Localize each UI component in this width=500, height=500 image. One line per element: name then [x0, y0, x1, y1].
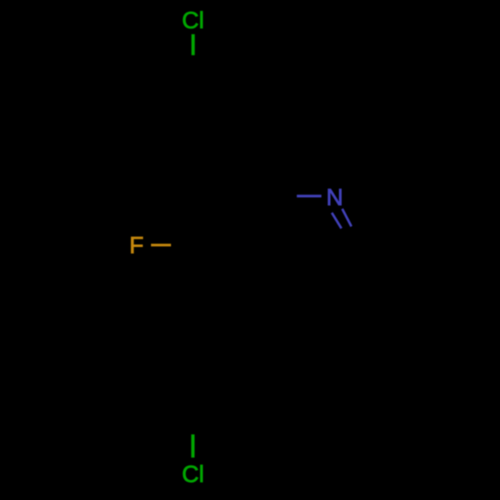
atom N1 (nitrogen label) — [328, 189, 341, 205]
bond F1-C horizontal half-bond (gold) — [151, 244, 171, 247]
atom Cl2 (bottom chlorine label) — [183, 465, 202, 482]
bond C=N1 double bond half, outer line (blue) — [342, 209, 351, 227]
bond C=N1 double bond half, inner line (blue) — [332, 213, 342, 229]
atom Cl1 (top chlorine label) — [183, 11, 202, 28]
bond Cl2-C vertical half-bond (bottom, green) — [191, 434, 194, 457]
atom F1 (fluorine label) — [131, 237, 142, 253]
bond Cl1-C4 vertical half-bond (top, green) — [191, 34, 194, 55]
bond C-N1 horizontal half-bond (blue) — [297, 195, 322, 198]
